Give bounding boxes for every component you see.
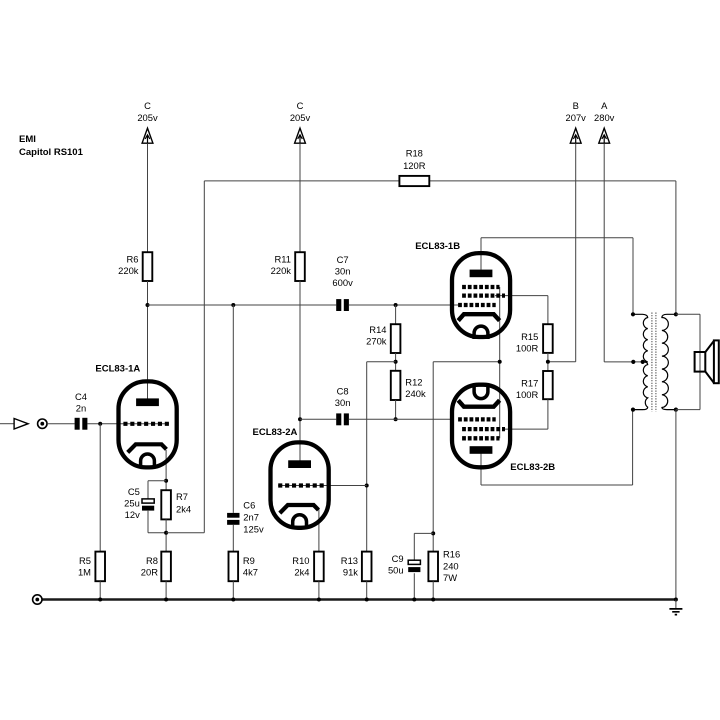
svg-text:R16: R16 [443, 549, 460, 560]
node R5 branch [98, 422, 102, 426]
resistor R7 [161, 490, 191, 519]
svg-text:A: A [601, 100, 608, 111]
svg-text:R6: R6 [127, 254, 139, 265]
svg-text:1M: 1M [78, 566, 91, 577]
capacitor C4 [75, 391, 88, 430]
resistor R13 [341, 552, 372, 582]
wire junction to R13 column [367, 362, 396, 552]
svg-text:R17: R17 [521, 378, 538, 389]
svg-text:B: B [573, 100, 579, 111]
node R14 branch [394, 303, 398, 307]
svg-text:20R: 20R [141, 566, 158, 577]
ground symbol [669, 600, 682, 615]
wire cathode link 1B 2B [433, 361, 500, 363]
svg-text:ECL83-2B: ECL83-2B [510, 462, 555, 473]
resistor R17 [516, 371, 553, 400]
transformer core [652, 313, 656, 412]
svg-text:207v: 207v [566, 112, 587, 123]
node cathode C5 R7 [164, 479, 168, 483]
title EMI Capitol RS101 [19, 134, 84, 158]
wire down to R5 [99, 424, 101, 552]
transformer T1 primary [633, 314, 648, 409]
wire C supply to R11 [299, 143, 301, 252]
transformer T1 secondary [662, 314, 676, 409]
resistor R16 [428, 549, 460, 583]
wire 2A plate to C8 [300, 418, 336, 420]
svg-text:120R: 120R [403, 160, 426, 171]
svg-text:C: C [297, 100, 304, 111]
svg-text:50u: 50u [388, 564, 404, 575]
svg-text:R14: R14 [369, 324, 386, 335]
input arrow [14, 419, 28, 430]
tube ECL83-2A [253, 427, 329, 529]
node secondary top [674, 312, 678, 316]
power symbol A 280v [594, 100, 615, 143]
wire B supply to screen node [548, 143, 576, 361]
wire C6 to R9 [232, 525, 234, 552]
wire secondary bottom to ground [675, 410, 677, 600]
svg-text:C7: C7 [337, 254, 349, 265]
svg-text:R13: R13 [341, 555, 358, 566]
svg-text:12v: 12v [125, 509, 140, 520]
wire A supply to primary centre tap [604, 143, 643, 362]
svg-text:C8: C8 [337, 385, 349, 396]
wire cathode to R16 column [432, 362, 434, 552]
svg-text:205v: 205v [137, 112, 158, 123]
ground terminal [33, 595, 42, 604]
node rail R5 [98, 598, 102, 602]
svg-text:R7: R7 [176, 491, 188, 502]
ground rail [43, 598, 676, 600]
wire R17 to 2B screen [504, 399, 548, 429]
svg-text:240k: 240k [405, 388, 426, 399]
power symbol B 207v [566, 100, 587, 143]
wire internal cathode suppressor column [499, 287, 501, 438]
svg-text:R8: R8 [146, 555, 158, 566]
svg-text:2n7: 2n7 [243, 512, 259, 523]
node R6 plate C7 junction [146, 303, 150, 307]
svg-text:C6: C6 [243, 499, 255, 510]
wire feedback loop [166, 181, 676, 533]
tube ECL83-1A [95, 364, 176, 468]
wire R16 to ground rail [432, 581, 434, 599]
svg-text:205v: 205v [290, 112, 311, 123]
resistor R14 [366, 324, 400, 353]
resistor R8 [141, 552, 171, 582]
wire 2A cathode to R10 [318, 509, 320, 552]
power symbol C 205v no1 [137, 100, 158, 143]
tube ECL83-2B [452, 384, 555, 473]
node primary tap [641, 360, 645, 364]
resistor R15 [516, 324, 553, 353]
wire R13 to ground rail [366, 581, 368, 599]
wire input stub [0, 423, 14, 425]
resistor R10 [292, 552, 323, 582]
svg-text:2k4: 2k4 [176, 503, 191, 514]
node rail end [674, 598, 678, 602]
wire 2B plate to transformer [481, 410, 633, 485]
resistor R9 [229, 552, 259, 582]
svg-text:R18: R18 [406, 147, 423, 158]
resistor R18 [399, 147, 429, 186]
svg-text:ECL83-2A: ECL83-2A [253, 427, 298, 438]
svg-text:220k: 220k [271, 265, 292, 276]
node primary top [631, 312, 635, 316]
node R14 R12 junction [394, 360, 398, 364]
svg-text:R11: R11 [274, 254, 291, 265]
svg-text:C5: C5 [128, 486, 140, 497]
capacitor C9 [388, 553, 420, 576]
wire R6 to 1A plate [147, 281, 149, 400]
wire C5 branch lower [148, 511, 166, 533]
wire terminal to C4 [47, 423, 74, 425]
wire 1A cathode down [165, 450, 167, 490]
svg-text:R15: R15 [521, 331, 538, 342]
wire C9 branch [414, 533, 433, 599]
wire 1B plate to transformer [481, 238, 633, 315]
svg-text:240: 240 [443, 560, 459, 571]
node rail C9 [412, 598, 416, 602]
tube ECL83-1B [415, 241, 510, 339]
svg-text:EMI: EMI [19, 134, 36, 145]
resistor R6 [118, 252, 152, 281]
svg-text:2n: 2n [76, 403, 86, 414]
svg-text:ECL83-1A: ECL83-1A [95, 364, 140, 375]
capacitor C7 [332, 254, 353, 311]
wire R9 to ground rail [232, 581, 234, 599]
node rail R16 [431, 598, 435, 602]
node C9 R16 junction [431, 531, 435, 535]
svg-text:30n: 30n [335, 397, 351, 408]
speaker LS1 [695, 340, 719, 383]
wire down to R14 [395, 305, 397, 324]
svg-text:280v: 280v [594, 112, 615, 123]
node R12 bottom [394, 417, 398, 421]
wire R7 to R8 [165, 519, 167, 551]
node rail R9 [231, 598, 235, 602]
svg-text:30n: 30n [335, 266, 351, 277]
resistor R12 [391, 371, 426, 400]
input terminal [38, 419, 47, 428]
svg-text:7W: 7W [443, 572, 457, 583]
svg-text:R10: R10 [292, 555, 309, 566]
resistor R11 [271, 252, 305, 281]
node C6 branch [231, 303, 235, 307]
node 2A grid to R13 [365, 484, 369, 488]
wire R11 to 2A plate [299, 281, 301, 462]
wire R10 to ground rail [318, 581, 320, 599]
svg-text:100R: 100R [516, 343, 539, 354]
svg-text:4k7: 4k7 [243, 566, 258, 577]
svg-text:91k: 91k [343, 566, 358, 577]
node rail R10 [317, 598, 321, 602]
wire R8 to ground rail [165, 581, 167, 599]
svg-text:R9: R9 [243, 555, 255, 566]
svg-text:600v: 600v [332, 277, 353, 288]
capacitor C6 [227, 499, 264, 534]
svg-text:R12: R12 [405, 376, 422, 387]
svg-text:100R: 100R [516, 389, 539, 400]
wire C supply to R6 [147, 143, 149, 252]
wire down to C6 [232, 305, 234, 513]
node rail R13 [365, 598, 369, 602]
node C8 branch 2A plate [298, 417, 302, 421]
capacitor C8 [335, 385, 351, 425]
wire R5 to ground rail [99, 581, 101, 599]
resistor R5 [78, 552, 105, 582]
svg-text:Capitol RS101: Capitol RS101 [19, 147, 84, 158]
node screen supply junction [546, 360, 550, 364]
svg-text:R5: R5 [79, 555, 91, 566]
svg-text:C9: C9 [392, 553, 404, 564]
wire C5 branch upper [148, 481, 166, 499]
svg-text:270k: 270k [366, 335, 387, 346]
wire C7 to 1B grid [349, 304, 460, 306]
node rail R8 [164, 598, 168, 602]
svg-text:220k: 220k [118, 265, 139, 276]
wire R14 to R12 [395, 353, 397, 371]
node primary bottom [631, 408, 635, 412]
wire R15 to R17 [547, 353, 549, 371]
svg-text:25u: 25u [124, 498, 140, 509]
wire 2A grid [278, 485, 367, 487]
power symbol C 205v no2 [290, 100, 311, 143]
wire bus plate to C7 [148, 304, 337, 306]
svg-text:125v: 125v [243, 524, 264, 535]
svg-text:C: C [144, 100, 151, 111]
node secondary bottom [674, 408, 678, 412]
capacitor C5 [124, 486, 154, 520]
wire 1B screen to R15 [495, 296, 548, 325]
svg-text:ECL83-1B: ECL83-1B [415, 241, 460, 252]
svg-text:2k4: 2k4 [294, 566, 309, 577]
svg-text:C4: C4 [75, 391, 87, 402]
wire R12 to C8 wire [395, 400, 397, 419]
node R7 R8 feedback [164, 531, 168, 535]
node primary tap left [631, 360, 635, 364]
wire C8 to 2B grid [349, 418, 453, 420]
node cathodes junction [498, 360, 502, 364]
wire C4 to grid of 1A [87, 423, 169, 425]
wire secondary to speaker [676, 314, 700, 409]
